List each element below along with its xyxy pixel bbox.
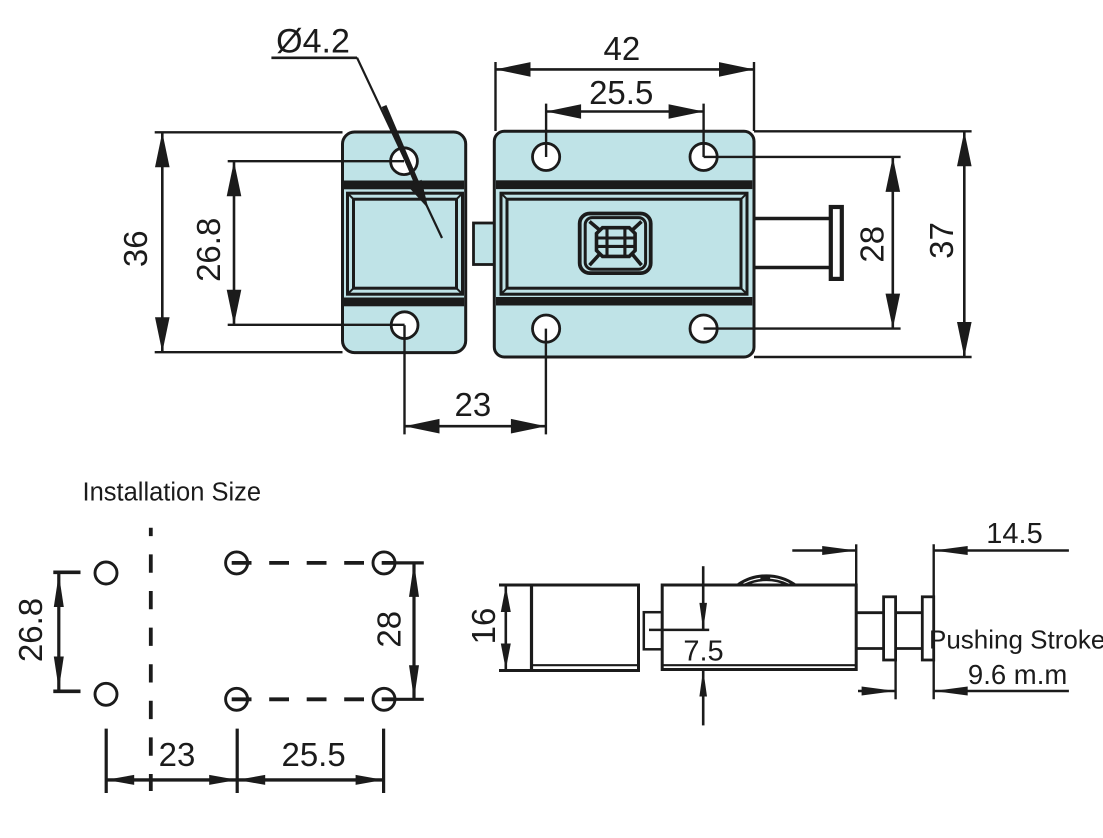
- dim 28 line: [891, 157, 894, 329]
- svg-text:Ø4.2: Ø4.2: [276, 23, 350, 61]
- install dim 28 arrow top: [409, 563, 419, 597]
- dim 28 extension lines: [704, 157, 901, 329]
- install dim 28 extension lines: [394, 563, 424, 699]
- dim 37 arrow top: [957, 131, 972, 166]
- left block top band: [344, 181, 464, 190]
- left block top hole: [391, 148, 418, 175]
- label Ø4.2 leader thick segment: [384, 106, 418, 186]
- svg-text:16: 16: [465, 608, 502, 645]
- svg-text:7.5: 7.5: [683, 636, 723, 668]
- dim 42 arrow left: [496, 62, 531, 77]
- dim 36 line: [161, 132, 164, 352]
- side dim 14.5 left segment: [792, 549, 856, 552]
- svg-text:36: 36: [117, 230, 154, 267]
- left block body: [343, 132, 466, 353]
- side bar1 (head plate): [884, 597, 896, 660]
- install hole right-group top-right: [373, 552, 395, 574]
- left block bottom hole: [391, 312, 418, 339]
- side dome inner arc: [746, 580, 788, 585]
- side dim 9.6 right arrow: [934, 687, 968, 696]
- side connector tab: [644, 612, 662, 649]
- svg-text:28: 28: [854, 226, 891, 263]
- svg-text:42: 42: [604, 30, 641, 67]
- install dim 26.8 ticks: [53, 572, 80, 691]
- right block body: [494, 131, 754, 357]
- svg-text:26.8: 26.8: [190, 218, 227, 282]
- side left box (open left side): [499, 585, 639, 671]
- install dim 25.5 arrow left: [237, 775, 265, 785]
- dim 26.8 arrow top: [227, 161, 242, 196]
- side center line through tab: [649, 629, 709, 632]
- dim 37 arrow bottom: [957, 322, 972, 357]
- ornament grid lines: [597, 228, 636, 257]
- left block bottom band: [344, 298, 464, 307]
- side right extension line (body edge up): [855, 544, 857, 585]
- ornament outer rounded rect: [580, 214, 651, 274]
- right block hole bottom-right: [690, 315, 717, 342]
- install hole left-top: [95, 562, 117, 584]
- side bar2 (end plate): [922, 597, 933, 660]
- dim 28 arrow bottom: [886, 294, 901, 329]
- side dim 9.6 right segment: [934, 690, 1069, 693]
- side left box thick vertical line: [530, 585, 533, 671]
- svg-text:Installation Size: Installation Size: [83, 479, 262, 507]
- right block middle plate outer: [501, 193, 747, 294]
- svg-text:25.5: 25.5: [281, 736, 345, 773]
- label Ø4.2 leader line: [357, 58, 442, 238]
- install dim 23 arrow right: [209, 775, 237, 785]
- install dim 23 line: [106, 778, 237, 781]
- dim 42 arrow right: [719, 62, 754, 77]
- left block middle plate inner: [354, 199, 457, 288]
- dim 37 line: [963, 131, 966, 357]
- right block hole top-right: [690, 143, 717, 170]
- install hole right-group top-left: [226, 552, 248, 574]
- side dim 9.6 left segment: [858, 690, 896, 693]
- side main body: [662, 585, 856, 670]
- dim 42 extension lines: [496, 62, 755, 131]
- install dim 28 arrow bottom: [409, 665, 419, 699]
- install dim 26.8 arrow top: [54, 574, 64, 607]
- install dim 25.5 arrow right: [356, 775, 384, 785]
- svg-text:9.6 m.m: 9.6 m.m: [968, 659, 1067, 690]
- ornament inner rounded rect: [585, 218, 645, 270]
- right block middle plate inner: [507, 199, 741, 288]
- install hole left-bottom: [95, 683, 117, 705]
- dim 26.8 extension lines: [228, 161, 405, 325]
- dim 28 arrow top: [886, 157, 901, 192]
- dim 26.8 arrow bottom: [227, 290, 242, 325]
- dim 36 extension lines: [155, 132, 343, 352]
- svg-text:23: 23: [455, 386, 492, 423]
- dim 37 extension lines: [754, 131, 972, 357]
- install bottom extension lines: [106, 729, 383, 793]
- plunger head top view: [831, 207, 842, 279]
- dim 23 top-view line: [405, 425, 546, 428]
- dim 25.5 arrow right: [669, 104, 704, 119]
- label Ø4.2 underline: [271, 56, 357, 59]
- dim 25.5 extension lines: [546, 104, 704, 157]
- install dashed line bottom (passes through holes): [232, 697, 396, 701]
- svg-text:26.8: 26.8: [12, 598, 49, 662]
- right block hole bottom-left: [533, 315, 560, 342]
- right block bottom band: [496, 297, 752, 306]
- plunger shaft top view: [756, 219, 831, 268]
- side dim 7.5 upper line: [702, 566, 705, 630]
- dim 42 line: [496, 68, 755, 71]
- side dim 16 arrow bottom: [501, 644, 511, 670]
- side main body inner bottom line: [662, 664, 856, 666]
- dim 23 top-view extension lines: [405, 325, 546, 434]
- side shaft lines: [858, 613, 923, 649]
- svg-text:23: 23: [159, 736, 196, 773]
- tongue between blocks: [474, 223, 495, 265]
- ornament diagonals: [590, 222, 642, 266]
- svg-text:25.5: 25.5: [589, 74, 653, 111]
- side extension line at bar2 right: [933, 544, 935, 699]
- left block plate corner bevels: [348, 193, 463, 294]
- ornament center octagon: [597, 228, 636, 257]
- dim 26.8 line: [233, 161, 236, 325]
- svg-text:Pushing Stroke: Pushing Stroke: [929, 625, 1103, 655]
- side dim 7.5 upper arrow (down): [699, 603, 707, 630]
- svg-text:37: 37: [923, 222, 960, 259]
- left block middle plate outer: [348, 193, 463, 294]
- install dim 28 line: [412, 563, 415, 699]
- side left box inner bottom line: [532, 664, 639, 666]
- install dashed line top (passes through holes): [232, 561, 396, 565]
- dim 25.5 arrow left: [546, 104, 581, 119]
- install hole right-group bottom-right: [373, 688, 395, 710]
- install dim 26.8 arrow bottom: [54, 657, 64, 690]
- side dim 7.5 lower arrow (up): [699, 670, 707, 697]
- dim 36 arrow bottom: [155, 317, 170, 352]
- side dome outer arc: [738, 576, 794, 585]
- dim 25.5 line: [546, 110, 704, 113]
- svg-text:28: 28: [371, 611, 408, 648]
- side dim 14.5 left arrow: [822, 546, 856, 555]
- svg-text:14.5: 14.5: [986, 518, 1042, 550]
- side extension below bar1: [894, 660, 896, 699]
- label Ø4.2 arrowhead: [408, 180, 429, 209]
- install dashed centerline: [149, 528, 153, 791]
- side dome top dash: [760, 577, 770, 580]
- side dim 14.5 right arrow: [934, 546, 968, 555]
- install dim 26.8 line: [57, 572, 60, 691]
- side dim 16 arrow top: [501, 586, 511, 612]
- right block top band: [496, 180, 752, 189]
- side dim 7.5 lower line: [702, 670, 705, 726]
- dim 23 arrow left: [405, 419, 440, 434]
- dim 23 arrow right: [511, 419, 546, 434]
- dim 36 arrow top: [155, 132, 170, 167]
- right block hole top-left: [533, 143, 560, 170]
- right block plate corner bevels: [501, 193, 747, 294]
- install hole right-group bottom-left: [226, 688, 248, 710]
- install dim 23 arrow left: [106, 775, 134, 785]
- install dim 25.5 line: [237, 778, 383, 781]
- side dim 9.6 left arrow: [862, 687, 896, 696]
- side dim 14.5 right segment: [934, 549, 1069, 552]
- side dim 16 line: [504, 585, 507, 671]
